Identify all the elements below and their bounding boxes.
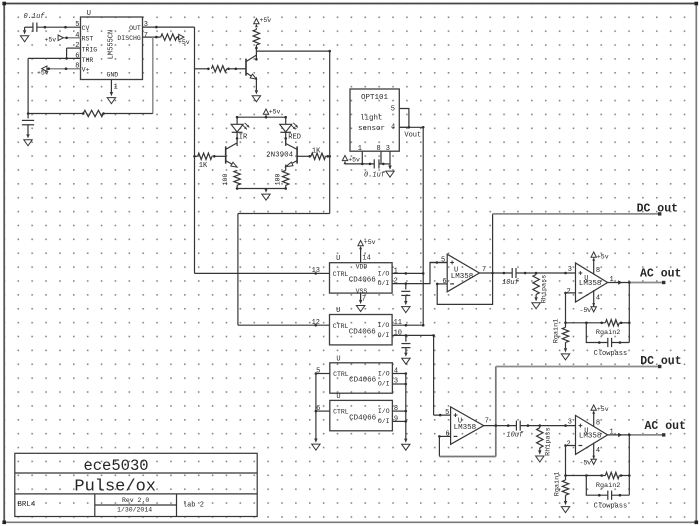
svg-text:U: U xyxy=(336,355,340,363)
svg-text:4: 4 xyxy=(391,123,395,131)
svg-text:V+: V+ xyxy=(82,66,90,73)
svg-text:O/I: O/I xyxy=(378,332,390,339)
svg-text:Rgain1: Rgain1 xyxy=(554,472,562,496)
svg-text:1: 1 xyxy=(610,428,614,436)
svg-text:+5v: +5v xyxy=(37,70,49,77)
svg-text:Rgain2: Rgain2 xyxy=(596,482,620,490)
svg-text:1K: 1K xyxy=(312,147,321,155)
svg-text:O/I: O/I xyxy=(378,418,390,425)
svg-text:light: light xyxy=(360,115,383,123)
svg-text:2: 2 xyxy=(75,42,79,50)
svg-text:DC out: DC out xyxy=(640,355,681,368)
svg-text:6: 6 xyxy=(446,430,450,438)
svg-text:10: 10 xyxy=(394,329,402,337)
svg-text:7: 7 xyxy=(485,417,489,425)
svg-text:CTRL: CTRL xyxy=(333,371,349,378)
svg-text:RST: RST xyxy=(82,35,94,42)
svg-text:5: 5 xyxy=(391,105,395,113)
svg-text:LM358: LM358 xyxy=(579,280,602,288)
svg-text:DISCHG: DISCHG xyxy=(117,35,141,42)
svg-text:10uf: 10uf xyxy=(506,432,524,440)
svg-text:CD4066: CD4066 xyxy=(349,377,377,385)
svg-text:11: 11 xyxy=(394,319,402,327)
svg-text:LM358: LM358 xyxy=(454,424,477,432)
svg-text:0.1uf: 0.1uf xyxy=(24,13,46,21)
svg-text:100: 100 xyxy=(222,174,229,186)
svg-text:IR: IR xyxy=(239,134,248,142)
svg-text:5: 5 xyxy=(75,21,79,29)
svg-text:12: 12 xyxy=(312,319,320,327)
svg-text:1: 1 xyxy=(394,267,398,275)
svg-text:OPT101: OPT101 xyxy=(361,94,389,102)
svg-text:LM358: LM358 xyxy=(579,433,602,441)
svg-text:2N3904: 2N3904 xyxy=(266,152,294,160)
svg-text:10uf: 10uf xyxy=(502,279,520,287)
svg-text:CD4066: CD4066 xyxy=(349,328,377,336)
svg-text:4: 4 xyxy=(394,368,398,376)
svg-text:+5v: +5v xyxy=(45,37,57,44)
svg-text:6: 6 xyxy=(442,278,446,286)
svg-text:Rgain1: Rgain1 xyxy=(553,319,561,343)
svg-text:U: U xyxy=(336,393,340,401)
svg-text:3: 3 xyxy=(144,21,148,29)
svg-text:U: U xyxy=(336,307,340,315)
svg-text:O/I: O/I xyxy=(378,380,390,387)
svg-text:VSS: VSS xyxy=(356,288,368,295)
svg-text:100: 100 xyxy=(274,174,281,186)
svg-text:-5v: -5v xyxy=(580,307,592,314)
svg-text:BRL4: BRL4 xyxy=(17,501,36,509)
svg-text:+5v: +5v xyxy=(597,253,609,260)
svg-text:8: 8 xyxy=(596,420,600,428)
svg-text:sensor: sensor xyxy=(358,125,385,133)
svg-text:CD4066: CD4066 xyxy=(349,277,377,285)
svg-text:+5v: +5v xyxy=(260,17,272,24)
svg-text:2: 2 xyxy=(394,278,398,286)
svg-text:4: 4 xyxy=(75,32,79,40)
svg-text:Vout: Vout xyxy=(404,132,421,140)
svg-text:+5v: +5v xyxy=(597,406,609,413)
svg-text:OUT: OUT xyxy=(129,25,141,32)
svg-text:3: 3 xyxy=(568,419,572,427)
svg-text:1: 1 xyxy=(610,276,614,284)
svg-text:8: 8 xyxy=(75,63,79,71)
svg-text:Rgain2: Rgain2 xyxy=(596,329,620,337)
svg-text:0.1uf: 0.1uf xyxy=(364,172,386,180)
svg-text:RED: RED xyxy=(288,134,301,142)
svg-text:U: U xyxy=(87,10,91,18)
svg-text:4: 4 xyxy=(596,295,600,303)
svg-text:7: 7 xyxy=(362,295,366,303)
svg-text:2: 2 xyxy=(567,441,571,449)
svg-text:5: 5 xyxy=(445,409,449,417)
svg-text:CD4066: CD4066 xyxy=(349,414,377,422)
svg-text:9: 9 xyxy=(394,415,398,423)
svg-text:DC out: DC out xyxy=(637,202,678,215)
svg-text:GND: GND xyxy=(107,72,119,79)
svg-text:1/30/2014: 1/30/2014 xyxy=(117,507,152,514)
svg-text:-5v: -5v xyxy=(580,460,592,467)
svg-text:AC out: AC out xyxy=(640,268,681,281)
svg-text:ece5030: ece5030 xyxy=(83,457,148,475)
svg-text:Clowpass: Clowpass xyxy=(594,503,628,511)
svg-text:O/I: O/I xyxy=(378,280,390,287)
svg-text:5: 5 xyxy=(441,256,445,264)
svg-text:8: 8 xyxy=(394,405,398,413)
svg-text:lab 2: lab 2 xyxy=(183,502,204,510)
svg-text:Clowpass: Clowpass xyxy=(594,350,628,358)
svg-text:1K: 1K xyxy=(199,162,208,170)
svg-text:14: 14 xyxy=(362,255,370,263)
svg-text:2: 2 xyxy=(567,288,571,296)
svg-text:+5v: +5v xyxy=(178,39,190,46)
svg-text:+5v: +5v xyxy=(348,157,360,164)
svg-text:I/O: I/O xyxy=(378,322,390,329)
svg-text:Pulse/ox: Pulse/ox xyxy=(74,478,156,497)
svg-text:U: U xyxy=(336,255,340,263)
svg-text:CTRL: CTRL xyxy=(333,271,349,278)
svg-text:I/O: I/O xyxy=(378,408,390,415)
svg-text:+5v: +5v xyxy=(269,109,281,116)
svg-text:7: 7 xyxy=(482,266,486,274)
svg-text:AC out: AC out xyxy=(645,420,686,433)
svg-text:Rhipass: Rhipass xyxy=(544,427,552,456)
svg-text:TRIG: TRIG xyxy=(82,47,98,54)
svg-text:8: 8 xyxy=(596,267,600,275)
svg-text:7: 7 xyxy=(144,32,148,40)
svg-text:6: 6 xyxy=(75,52,79,60)
svg-text:CV: CV xyxy=(82,25,90,32)
svg-text:1: 1 xyxy=(114,84,118,92)
svg-text:LM358: LM358 xyxy=(451,273,474,281)
svg-text:4: 4 xyxy=(596,447,600,455)
svg-text:CTRL: CTRL xyxy=(333,323,349,330)
svg-text:8: 8 xyxy=(377,145,381,153)
svg-text:THR: THR xyxy=(82,57,94,64)
svg-text:Rhipass: Rhipass xyxy=(541,275,549,304)
svg-text:+5v: +5v xyxy=(364,239,376,246)
svg-text:3: 3 xyxy=(568,266,572,274)
svg-text:3: 3 xyxy=(386,145,390,153)
svg-text:1: 1 xyxy=(358,145,362,153)
svg-text:LM555CN: LM555CN xyxy=(108,30,116,59)
svg-text:VDD: VDD xyxy=(356,264,368,271)
svg-text:I/O: I/O xyxy=(378,270,390,277)
svg-text:I/O: I/O xyxy=(378,370,390,377)
svg-text:CTRL: CTRL xyxy=(333,409,349,416)
svg-text:Rev 2.0: Rev 2.0 xyxy=(122,497,149,504)
